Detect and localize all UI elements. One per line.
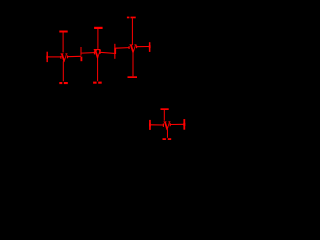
svg-text:V: V bbox=[130, 42, 137, 56]
svg-text:V: V bbox=[163, 119, 170, 133]
svg-text:V: V bbox=[94, 48, 101, 62]
svg-text:V: V bbox=[61, 51, 68, 65]
